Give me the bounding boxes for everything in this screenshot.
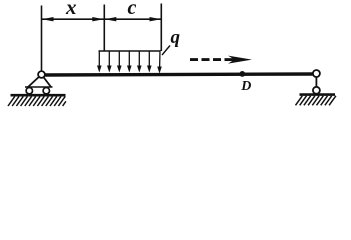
extension line left (at support A): [41, 6, 43, 72]
dimension c right arrowhead: [150, 17, 162, 21]
pin A circle: [38, 71, 45, 78]
load arrow 6: [147, 51, 152, 73]
dimension line c: [105, 18, 161, 20]
dimension x right arrowhead: [92, 17, 104, 21]
support B link: [315, 74, 317, 91]
extension line middle (load start): [103, 5, 105, 52]
dimension c left arrowhead: [105, 17, 117, 21]
load arrow 7: [157, 51, 162, 74]
ground right hatching: [296, 96, 336, 106]
beam: [44, 74, 314, 75]
leader line to q: [162, 46, 170, 56]
roller 1: [26, 88, 32, 94]
svg-text:D: D: [240, 79, 251, 94]
load arrow 1: [97, 51, 102, 73]
dimension x left arrowhead: [42, 17, 54, 21]
dimension line x: [42, 18, 104, 20]
svg-text:c: c: [128, 0, 137, 19]
load arrow 4: [127, 51, 132, 73]
ground right top line: [300, 93, 336, 96]
point D: [239, 71, 245, 77]
support A base line: [25, 86, 53, 88]
load arrow 5: [137, 51, 142, 73]
ground left hatching: [8, 96, 66, 106]
ground left top line: [11, 94, 66, 97]
distributed load top line: [99, 50, 161, 52]
motion arrowhead: [228, 56, 252, 64]
svg-text:x: x: [65, 0, 77, 19]
extension line right (load end): [160, 4, 162, 52]
motion arrow (dashed): [190, 58, 221, 61]
roller 2: [43, 88, 49, 94]
support A triangle: [28, 75, 51, 88]
svg-text:q: q: [171, 27, 181, 48]
pin B top circle: [313, 70, 320, 77]
pin B bottom circle: [313, 87, 320, 94]
load arrow 3: [117, 51, 122, 73]
load arrow 2: [107, 51, 112, 73]
